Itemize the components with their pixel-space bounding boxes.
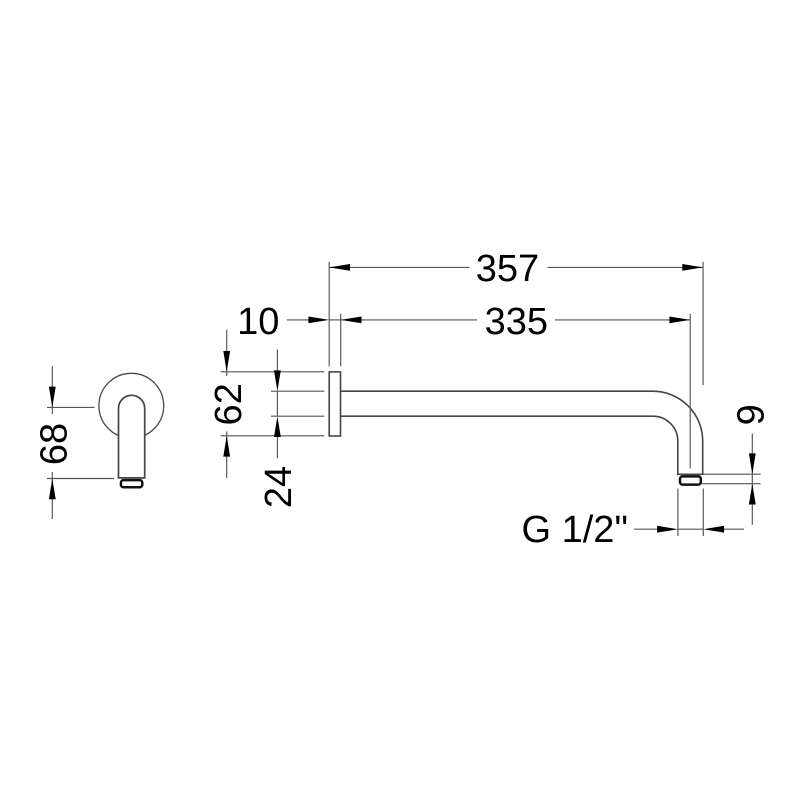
dimension 24: bottom extension line (271, 415, 324, 417)
svg-text:357: 357 (476, 248, 539, 290)
dimension 357: dimension line with arrows (329, 266, 703, 268)
svg-text:68: 68 (33, 423, 75, 465)
dimension 9: bottom extension line (702, 483, 761, 485)
svg-text:335: 335 (485, 301, 548, 343)
dimension 335: right extension line (pipe centre) (689, 314, 691, 469)
outlet cap nut (side view) (680, 476, 701, 484)
dimension 335: left extension line (340, 314, 342, 367)
dimension G 1/2: right extension line (702, 489, 704, 537)
dimension G 1/2: dimension line with arrows (634, 528, 744, 530)
dimension 357: left extension line (328, 262, 330, 367)
svg-text:9: 9 (731, 404, 773, 425)
dimension 24: top extension line (271, 390, 324, 392)
dimension 10: dimension line with arrow (287, 319, 309, 321)
shower arm tube with elbow (side view) (338, 391, 703, 474)
dimension 9: dimension line with arrows (751, 433, 753, 524)
dimension 357: right extension line (702, 262, 704, 385)
svg-text:G 1/2": G 1/2" (522, 509, 628, 551)
dimension 335: dimension line with arrows (341, 319, 691, 321)
dimension 68: dimension line with arrows (51, 366, 53, 519)
dimension 62: dimension line with arrows (226, 330, 228, 478)
dimension 24: dimension line with arrows (276, 350, 278, 459)
dimension 68: top extension line (47, 406, 95, 408)
outlet cap nut (front view) (121, 480, 142, 487)
dimension 62: bottom extension line (221, 435, 325, 437)
svg-text:24: 24 (258, 466, 300, 508)
dimension G 1/2: left extension line (677, 489, 679, 537)
wall flange escutcheon (front view circle) (99, 373, 164, 438)
dimension 62: top extension line (221, 371, 325, 373)
dimension 68: bottom extension line (47, 478, 114, 480)
svg-text:62: 62 (208, 383, 250, 425)
dimension 9: top extension line (704, 473, 761, 475)
wall flange (side view) (329, 372, 340, 436)
svg-text:10: 10 (237, 301, 279, 343)
shower arm tube (front view, inverted U) (119, 395, 145, 478)
